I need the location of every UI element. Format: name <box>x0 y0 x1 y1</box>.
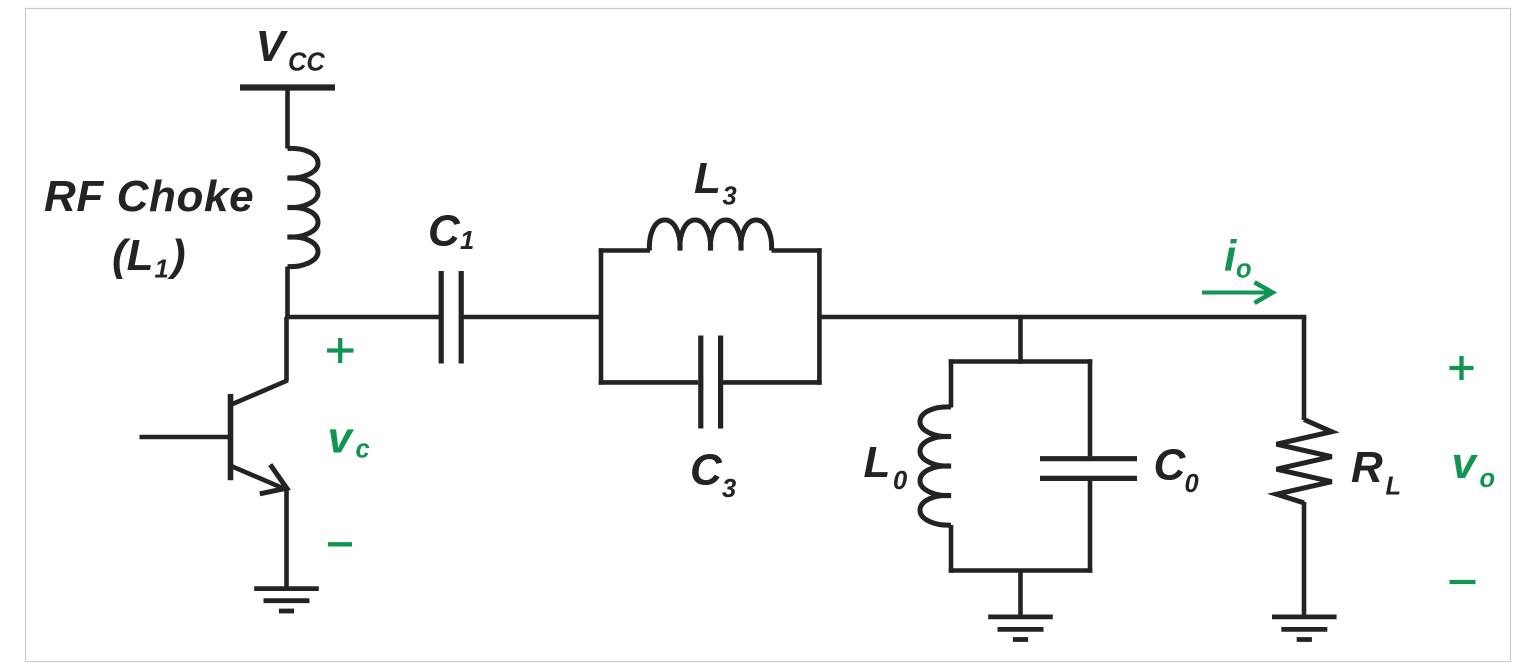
transistor Q1 collector wire <box>284 317 289 381</box>
wire L1 to collector node <box>285 267 290 320</box>
svg-text:3: 3 <box>723 183 737 211</box>
svg-text:v: v <box>328 414 355 463</box>
wire node to RL <box>1302 317 1307 420</box>
tank2 box top side <box>949 359 1093 364</box>
wire tank to RL node <box>819 315 1306 320</box>
transistor Q1 base wire <box>140 435 234 440</box>
capacitor C0 top plate <box>1040 456 1137 461</box>
svg-text:R: R <box>1351 443 1383 492</box>
svg-text:C: C <box>1154 440 1187 489</box>
inductor L3 <box>649 220 771 251</box>
green annotations <box>327 282 1476 582</box>
ground (emitter) <box>254 589 319 611</box>
svg-text:1: 1 <box>460 227 474 255</box>
green labels <box>328 231 1496 493</box>
plus sign (vc) <box>327 348 354 352</box>
transistor Q1 emitter arrowhead <box>260 465 287 494</box>
svg-text:0: 0 <box>893 467 907 495</box>
ground (tank2) <box>988 617 1053 640</box>
svg-text:V: V <box>256 22 289 71</box>
ground (RL) <box>1272 617 1337 640</box>
transistor Q1 collector diagonal <box>231 380 288 405</box>
plus sign (vo) <box>1450 366 1474 370</box>
current io arrow shaft <box>1202 291 1268 295</box>
wire VCC to L1 <box>285 88 290 149</box>
svg-text:C: C <box>428 207 461 256</box>
svg-text:RF Choke: RF Choke <box>44 172 254 221</box>
svg-text:L: L <box>694 154 721 203</box>
tank box right side <box>817 248 822 385</box>
node: collector node to C1 wire <box>285 315 439 320</box>
power rail VCC bar <box>240 84 335 90</box>
tank2 box right-bottom segment <box>1088 481 1093 573</box>
wire node to tank L0C0 <box>1018 317 1023 364</box>
wire tank2 to ground <box>1018 571 1023 616</box>
inductor L0 <box>920 407 951 525</box>
svg-text:CC: CC <box>288 49 325 77</box>
svg-text:3: 3 <box>722 475 736 503</box>
minus sign (vc) <box>328 542 352 546</box>
current io arrowhead <box>1255 282 1273 303</box>
svg-text:o: o <box>1480 465 1496 493</box>
tank2 box left-top segment <box>949 359 954 407</box>
minus sign (vo) <box>1450 580 1476 584</box>
tank2 box right-top segment <box>1088 359 1093 456</box>
inductor L1 (RF choke) <box>288 148 319 266</box>
transistor Q1 base bar <box>228 394 234 480</box>
capacitor C3 left plate <box>698 336 703 429</box>
svg-text:(L: (L <box>112 231 154 280</box>
capacitor C1 right plate <box>459 271 464 364</box>
tank box top-left segment <box>599 248 650 253</box>
svg-text:C: C <box>690 446 723 495</box>
tank2 box bottom side <box>949 568 1093 573</box>
svg-text:L: L <box>1386 472 1402 500</box>
tank box top-right segment <box>772 248 822 253</box>
capacitor C0 bottom plate <box>1040 476 1137 481</box>
svg-text:1: 1 <box>155 256 169 284</box>
svg-text:v: v <box>1452 439 1479 488</box>
capacitor C3 right plate <box>718 336 723 429</box>
black labels <box>44 22 1401 503</box>
wire RL to ground <box>1302 502 1307 616</box>
transistor Q1 emitter wire <box>284 488 289 589</box>
resistor RL zigzag <box>1277 420 1332 503</box>
wire C1 to tank L3C3 <box>464 315 604 320</box>
transistor Q1 emitter diagonal <box>231 466 285 489</box>
svg-text:L: L <box>864 438 891 487</box>
svg-text:c: c <box>356 436 370 464</box>
tank box bottom-left segment <box>599 380 699 385</box>
tank box left side <box>599 248 604 385</box>
tank box bottom-right segment <box>723 380 822 385</box>
svg-text:o: o <box>1236 256 1252 284</box>
capacitor C1 left plate <box>439 271 444 364</box>
svg-text:0: 0 <box>1185 470 1199 498</box>
tank2 box left-bottom segment <box>949 525 954 573</box>
